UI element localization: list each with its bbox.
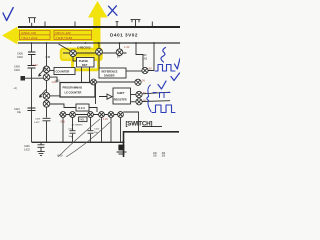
blue curly brace: [147, 85, 151, 112]
wire prog counter to TP2: [96, 82, 137, 104]
svg-text:LE COUNTER: LE COUNTER: [65, 91, 82, 95]
svg-text:0V: 0V: [149, 67, 152, 70]
tick at x152 on bus1: [151, 22, 153, 27]
svg-text:O.C.C: O.C.C: [78, 106, 85, 110]
svg-text:B+: B+: [117, 55, 121, 59]
svg-text:DIVIDER: DIVIDER: [104, 74, 115, 78]
svg-text:2.4V: 2.4V: [33, 63, 39, 67]
left rail (x31.5) with capacitor gaps: [31, 44, 33, 142]
connector P2: [96, 49, 103, 56]
wire K4 down to ground: [101, 117, 103, 142]
test point TP3: [136, 91, 142, 97]
wire bus2 to connector P2: [98, 43, 100, 49]
tick at x75 on bus1: [74, 22, 76, 27]
svg-text:0V: 0V: [142, 79, 145, 82]
svg-text:C4BC002: C4BC002: [77, 45, 91, 49]
connector K1: [60, 112, 66, 118]
connector P4: [91, 79, 97, 85]
svg-text:MR.UV–12R: MR.UV–12R: [56, 31, 71, 35]
svg-text:PHASE: PHASE: [79, 59, 88, 63]
wire shift register to TP4: [131, 101, 136, 103]
wire OCC right side down: [89, 108, 97, 113]
svg-text:0.022: 0.022: [34, 122, 40, 124]
capacitor C409 on rail: [43, 118, 51, 121]
svg-text:C404: C404: [14, 69, 20, 72]
svg-text:C409: C409: [35, 119, 41, 121]
wire K5 down: [110, 117, 112, 142]
switch unit box corner: [124, 132, 180, 157]
bus 1 (top supply rail): [18, 26, 180, 28]
connector J4: [43, 101, 50, 108]
wire from node square to J2: [25, 77, 43, 79]
svg-text:1.9V: 1.9V: [103, 118, 108, 121]
shift register box U6: [113, 88, 131, 104]
tick T at x117 on bus1: [116, 22, 119, 26]
test point TP4: [136, 99, 142, 105]
ground bus: [32, 142, 125, 143]
blue squiggle component mark: [161, 48, 166, 63]
capacitor C438/C403: [28, 52, 36, 55]
svg-text:1.4V: 1.4V: [124, 45, 130, 49]
red measurement table on yellow arrow: [20, 30, 92, 40]
capacitor C410: [28, 108, 36, 111]
blue check 2: [171, 73, 180, 81]
leader curve 2: [66, 122, 110, 157]
connector K3: [88, 112, 94, 118]
wire K1 down to ground: [62, 117, 64, 142]
blue check 3: [158, 81, 166, 89]
vertical wire x154: [148, 44, 154, 71]
wire ref divider to TP1: [126, 70, 142, 72]
C4BC002 row wire: [63, 52, 127, 54]
blue check top-left: [3, 8, 13, 21]
capacitor C408 to ground: [38, 143, 45, 151]
svg-text:X401: X401: [79, 120, 85, 122]
capacitor C405/C404: [28, 66, 36, 69]
phase detector box U2: [77, 58, 95, 68]
svg-text:COUNTER: COUNTER: [56, 70, 70, 74]
wire P1 down to phase det: [73, 57, 77, 62]
connector J3: [43, 93, 50, 100]
blue dashed pulse sketch: [153, 93, 170, 98]
svg-text:C403: C403: [17, 56, 23, 59]
junction dots on bus2: [31, 42, 155, 44]
wire bus2 to connector P3: [119, 43, 121, 49]
capacitor C412: [88, 131, 94, 134]
connector P3 B+: [116, 49, 123, 56]
highlighter: yellow ring around phase detector: [73, 54, 99, 70]
connector K6: [118, 112, 124, 118]
pointer arrow a1: [39, 68, 46, 76]
reference divider box U5: [98, 55, 100, 68]
wire J3 to programmable counter: [50, 95, 60, 97]
capacitor C413: [70, 131, 76, 134]
programmable counter box U4: [60, 83, 95, 98]
wire J4 to OCC: [50, 104, 76, 108]
svg-text:PROGRAMMAB: PROGRAMMAB: [63, 86, 83, 90]
test point TP1: [142, 67, 148, 73]
connector J1: [43, 66, 50, 73]
highlighter: horizontal yellow arrow: [2, 27, 95, 45]
highlighter: vertical yellow arrow: [88, 1, 108, 50]
svg-text:REGISTER: REGISTER: [114, 99, 127, 102]
blue square wave 1: [155, 65, 175, 72]
svg-text:C408: C408: [24, 146, 30, 148]
svg-text:C412: C412: [94, 128, 100, 130]
blue check after wave 1: [175, 59, 181, 70]
svg-text:16µ: 16µ: [17, 111, 22, 114]
connector K5: [108, 112, 114, 118]
wire bus2 down right of divider: [136, 43, 143, 68]
svg-text:C413: C413: [68, 128, 74, 130]
leader curve 1: [58, 119, 100, 157]
wire TP3 to edge: [142, 92, 170, 94]
svg-text:D401 3V02: D401 3V02: [110, 33, 138, 38]
counter box U3: [54, 68, 75, 75]
connector K2: [70, 112, 76, 118]
svg-text:SHIFT: SHIFT: [117, 91, 125, 95]
wire TP4 to edge: [142, 100, 170, 103]
wire J2 to programmable counter: [50, 77, 57, 82]
wire K6 down: [120, 117, 122, 142]
tick at x45 on bus1: [44, 22, 46, 27]
wire J1 to counter: [50, 70, 54, 72]
blue X annotation: [108, 6, 117, 16]
blue square wave 2: [152, 105, 175, 113]
svg-text:C4B: C4B: [46, 56, 51, 59]
connector K4: [99, 112, 105, 118]
wires phase det to programmable counter: [82, 67, 90, 83]
wire bus2 to connector P1: [59, 44, 71, 51]
buffer arrow into shift register: [99, 94, 112, 99]
trimmer symbol T1 above bus1: [28, 18, 36, 26]
svg-text:32.768KHZ: 32.768KHZ: [72, 124, 84, 126]
crystal X401 label: [79, 117, 88, 122]
wire shift register to TP3: [131, 94, 136, 96]
connector J2: [43, 74, 50, 81]
bus 2 (second rail): [18, 42, 180, 43]
wire K2 down: [72, 117, 74, 142]
svg-text:7 W.B 7 W.B2: 7 W.B 7 W.B2: [56, 36, 73, 40]
wire step to switch area: [123, 112, 138, 132]
underline under SWITCH: [142, 126, 162, 128]
svg-text:0.022: 0.022: [24, 150, 30, 152]
svg-text:–4(.: –4(.: [13, 87, 18, 90]
test point TP2: [135, 79, 141, 85]
svg-text:(4B): (4B): [55, 80, 60, 83]
second rail (x46.5): [46, 44, 48, 142]
node square on left feeder: [21, 76, 26, 81]
connector P1: [70, 50, 77, 57]
svg-text:7 W.A 7 W.A2: 7 W.A 7 W.A2: [21, 36, 38, 40]
crystal symbol above bus1 right: [131, 20, 141, 26]
bottom connector row wire: [59, 114, 124, 116]
svg-text:REFERENCE: REFERENCE: [102, 69, 118, 73]
svg-text:DET: DET: [82, 63, 88, 67]
svg-text:LM2AV–C02: LM2AV–C02: [21, 31, 37, 35]
OCC oscillator box U7: [76, 104, 89, 111]
wire K3 down: [90, 117, 92, 142]
highlighter: yellow band around C4BC002 row: [61, 49, 102, 60]
chassis ground terminal: [118, 145, 124, 151]
pointer arrow a2: [39, 90, 46, 98]
paper background: [0, 0, 180, 157]
svg-text:1/62: 1/62: [143, 57, 148, 60]
